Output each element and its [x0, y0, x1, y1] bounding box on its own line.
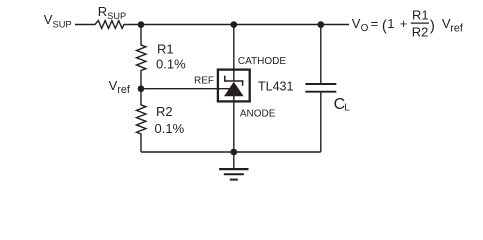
svg-text:V: V	[352, 16, 361, 31]
svg-text:=: =	[371, 16, 379, 31]
svg-text:TL431: TL431	[258, 80, 293, 94]
svg-text:ANODE: ANODE	[240, 109, 276, 120]
svg-text:SUP: SUP	[53, 19, 72, 29]
svg-text:ref: ref	[450, 22, 464, 34]
svg-text:V: V	[109, 78, 118, 93]
svg-text:1: 1	[387, 16, 394, 31]
svg-text:L: L	[344, 103, 350, 114]
svg-text:): )	[430, 17, 435, 34]
svg-text:R2: R2	[156, 104, 173, 119]
svg-text:+: +	[400, 16, 408, 31]
svg-text:SUP: SUP	[107, 11, 126, 21]
svg-text:CATHODE: CATHODE	[238, 56, 286, 67]
svg-text:R2: R2	[412, 25, 429, 40]
svg-text:0.1%: 0.1%	[155, 121, 185, 136]
svg-text:O: O	[361, 23, 369, 34]
svg-text:ref: ref	[117, 84, 131, 96]
svg-text:R: R	[98, 4, 107, 19]
svg-text:REF: REF	[194, 76, 214, 87]
svg-text:R1: R1	[412, 7, 429, 22]
svg-text:(: (	[382, 17, 387, 34]
svg-text:0.1%: 0.1%	[156, 57, 186, 72]
svg-text:R1: R1	[157, 42, 174, 57]
svg-text:V: V	[44, 12, 53, 27]
